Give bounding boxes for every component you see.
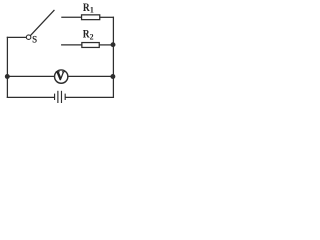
wire voltmeter left	[7, 75, 54, 77]
resistor R1 box	[82, 15, 100, 20]
wire top-left horizontal to switch	[7, 36, 26, 38]
svg-text:V: V	[56, 69, 65, 83]
switch S blade	[30, 10, 54, 35]
svg-text:S: S	[32, 35, 37, 45]
switch S contact circle	[26, 35, 31, 40]
battery cell long plate 1	[57, 91, 58, 103]
svg-text:1: 1	[90, 6, 94, 15]
battery cell short plate 1	[54, 94, 55, 100]
wire right vertical	[112, 17, 114, 97]
wire R2 right	[100, 44, 114, 46]
wire R2 left	[62, 44, 82, 46]
wire battery to bottom-right	[66, 96, 114, 98]
junction dot right upper (R2 join)	[111, 42, 116, 47]
wire R1 left contact	[62, 16, 81, 18]
svg-text:2: 2	[90, 33, 94, 42]
wire R1 right	[100, 16, 113, 18]
voltmeter V circle	[55, 70, 68, 83]
battery cell long plate 2	[61, 91, 62, 103]
wire bottom-left to battery	[7, 96, 54, 98]
junction dot right lower (voltmeter join)	[110, 74, 115, 79]
battery cell short plate 2	[65, 94, 66, 100]
wire voltmeter right	[68, 75, 113, 77]
resistor R2 box	[82, 43, 99, 48]
wire left vertical	[6, 37, 8, 97]
junction dot left (voltmeter join)	[5, 74, 10, 79]
